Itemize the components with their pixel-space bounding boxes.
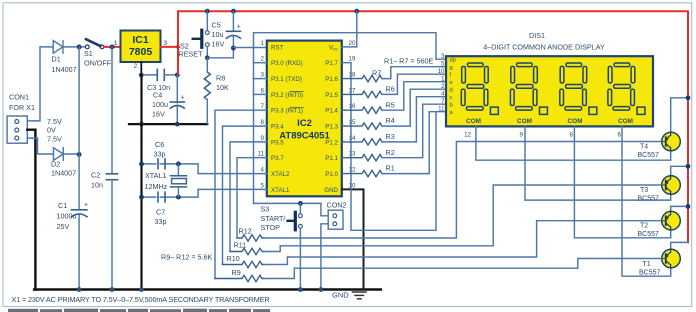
node xtal bottom left xyxy=(139,195,144,200)
node bus/CON2 xyxy=(319,287,324,292)
svg-text:15: 15 xyxy=(349,119,356,126)
resistor R12 5.6K and feed to T4 base xyxy=(237,142,662,242)
svg-text:R5: R5 xyxy=(386,100,395,109)
wire RST node to IC2 pin1 xyxy=(233,47,266,49)
svg-text:COM: COM xyxy=(466,118,481,125)
svg-text:BC557: BC557 xyxy=(638,196,660,203)
svg-text:dp: dp xyxy=(450,58,456,64)
svg-text:1: 1 xyxy=(441,76,445,83)
seven-segment digit 1 xyxy=(461,63,498,114)
resistor R1 560E to segment b xyxy=(342,112,448,177)
svg-text:c: c xyxy=(450,95,453,101)
svg-text:9: 9 xyxy=(520,132,524,139)
wire XTAL2 row (pin4) xyxy=(142,164,267,174)
svg-text:11: 11 xyxy=(258,151,265,158)
svg-text:20: 20 xyxy=(349,40,356,47)
svg-text:S1: S1 xyxy=(84,49,93,58)
svg-text:S3: S3 xyxy=(261,205,270,214)
svg-text:GND: GND xyxy=(332,291,349,300)
svg-text:7.5V: 7.5V xyxy=(47,135,62,144)
node S2/R8/C5 row xyxy=(205,55,210,60)
svg-text:33p: 33p xyxy=(154,150,166,159)
svg-text:1N4007: 1N4007 xyxy=(51,169,76,178)
svg-text:BC557: BC557 xyxy=(638,152,660,159)
resistor R2 560E to segment c xyxy=(342,104,448,161)
wire COM pin9 to T3 collector xyxy=(525,126,671,200)
svg-text:BC557: BC557 xyxy=(638,231,660,238)
wire IC2 pin2 stub xyxy=(254,62,267,64)
capacitor C1 1000u 25V xyxy=(57,201,89,231)
svg-text:R6: R6 xyxy=(386,85,395,94)
switch S2 RESET xyxy=(179,30,210,58)
wire C5 bottom to RST node xyxy=(232,37,234,48)
node rail/Vcc drop xyxy=(354,9,359,14)
svg-text:XTAL2: XTAL2 xyxy=(271,171,290,178)
resistor R11 5.6K and feed to T3 base xyxy=(230,185,662,255)
wire CON2 pin2 to ground bus xyxy=(321,224,328,290)
node xtal top left xyxy=(139,162,144,167)
svg-text:12MHz: 12MHz xyxy=(145,182,168,191)
svg-text:R9: R9 xyxy=(232,268,241,277)
wire IC1 pin2 ground drop xyxy=(140,62,142,75)
node red corner at IC1 pin3 xyxy=(176,45,180,49)
resistor R3 560E to segment d xyxy=(342,97,448,145)
wire COM pin8 to T2 collector xyxy=(574,126,670,237)
svg-text:R3: R3 xyxy=(386,132,395,141)
svg-text:R11: R11 xyxy=(234,241,247,250)
svg-text:C2: C2 xyxy=(91,171,100,180)
node bus/ground column xyxy=(139,287,144,292)
svg-text:1000u: 1000u xyxy=(57,212,77,221)
wire +5V red: IC1 out, top rail and right rail xyxy=(161,11,689,242)
node rail/S2 xyxy=(205,9,210,14)
svg-text:R4: R4 xyxy=(386,116,395,125)
diode D1 1N4007 xyxy=(52,41,77,74)
svg-text:1: 1 xyxy=(261,40,265,47)
wire IC2 pin19 to display segment a xyxy=(342,63,436,231)
wire T4 emitter to +5V rail xyxy=(671,98,688,133)
wire IC2 pin7 to R9 column xyxy=(215,110,267,278)
svg-text:13: 13 xyxy=(349,151,356,158)
node Vout / C4 top xyxy=(175,73,180,78)
wire Vcc drop rail to IC2 pin20 xyxy=(357,10,688,12)
node S3 top xyxy=(298,201,303,206)
svg-text:16V: 16V xyxy=(152,110,165,119)
capacitor C4 100u 16V xyxy=(152,91,185,119)
wire XTAL1 row (pin5) xyxy=(142,189,267,197)
svg-text:7805: 7805 xyxy=(129,46,153,58)
svg-text:4: 4 xyxy=(261,167,265,174)
resistor R4 560E to segment e xyxy=(342,89,448,129)
svg-text:10n: 10n xyxy=(91,181,103,190)
svg-text:16V: 16V xyxy=(212,40,225,49)
svg-text:10K: 10K xyxy=(216,83,229,92)
wire C4 bottom lead xyxy=(176,107,178,125)
wire C2 bottom to ground bus xyxy=(111,180,113,290)
svg-text:+: + xyxy=(181,95,185,102)
svg-text:RST: RST xyxy=(271,44,284,51)
wire S3 feed row from pin6 column xyxy=(254,202,321,204)
svg-text:d: d xyxy=(450,88,453,94)
svg-text:C7: C7 xyxy=(156,208,165,217)
svg-text:1: 1 xyxy=(114,40,118,47)
svg-text:33p: 33p xyxy=(155,217,167,226)
svg-text:P3.4: P3.4 xyxy=(271,124,284,131)
svg-text:STOP: STOP xyxy=(261,223,281,232)
svg-text:10: 10 xyxy=(438,68,445,75)
capacitor C5 10u 16V xyxy=(212,21,241,49)
wire S2 top lead xyxy=(206,11,208,31)
svg-text:b: b xyxy=(450,103,453,109)
wire COM pin12 to T4 collector xyxy=(476,126,671,160)
svg-text:P1.1: P1.1 xyxy=(325,155,338,162)
wire C3 to Vout column xyxy=(164,74,177,76)
node RST xyxy=(231,46,236,51)
svg-text:P1.0: P1.0 xyxy=(325,171,338,178)
wire S3 bottom to ground bus xyxy=(299,228,301,289)
svg-text:5: 5 xyxy=(441,61,445,68)
ground bus bottom (black) xyxy=(34,288,381,291)
wire IC2 pin11 to R12 column xyxy=(237,158,267,238)
switch S1 ON/OFF xyxy=(84,39,112,67)
svg-text:START/: START/ xyxy=(261,214,286,223)
svg-text:10: 10 xyxy=(349,182,356,189)
svg-text:R2: R2 xyxy=(386,148,395,157)
node rail/C5 xyxy=(231,9,236,14)
node rail/T4 emitter xyxy=(686,95,691,100)
svg-text:4–DIGIT COMMON ANODE DISPLAY: 4–DIGIT COMMON ANODE DISPLAY xyxy=(483,43,605,52)
wire CON1 pin1 to D1 anode xyxy=(27,47,53,121)
svg-text:7: 7 xyxy=(441,98,445,105)
svg-text:P3.7: P3.7 xyxy=(271,155,284,162)
svg-text:R1: R1 xyxy=(386,164,395,173)
regulator IC1 7805 xyxy=(121,31,161,63)
svg-text:17: 17 xyxy=(349,87,356,94)
wire C1 bottom to ground bus xyxy=(78,215,80,289)
svg-text:C6: C6 xyxy=(155,140,164,149)
wire ground branch horizontal xyxy=(129,123,207,125)
svg-text:RESET: RESET xyxy=(179,50,204,59)
svg-text:2: 2 xyxy=(441,83,445,90)
resistor R6 560E to segment g xyxy=(342,74,448,97)
svg-text:P1.6: P1.6 xyxy=(325,76,338,83)
transistor T2 BC557 xyxy=(662,211,681,230)
svg-text:P3.0 (RXD): P3.0 (RXD) xyxy=(271,60,303,67)
overline INT0 xyxy=(290,91,304,93)
node xtal bottom right xyxy=(176,195,181,200)
connector CON1 xyxy=(7,93,35,144)
svg-text:P3.1 (TXD): P3.1 (TXD) xyxy=(271,76,302,83)
wire T2 emitter to +5V rail xyxy=(671,206,688,212)
diode D2 1N4007 xyxy=(51,148,76,178)
transistor T3 BC557 xyxy=(662,176,681,195)
svg-text:P1.2: P1.2 xyxy=(325,139,338,146)
overline INT1 xyxy=(290,106,304,108)
svg-text:4: 4 xyxy=(441,91,445,98)
svg-text:C1: C1 xyxy=(58,201,67,210)
svg-text:11: 11 xyxy=(438,106,445,113)
svg-text:C4: C4 xyxy=(153,91,162,100)
node C2 top junction xyxy=(110,45,115,50)
seven-segment digit 3 xyxy=(560,63,597,114)
wire P3 branch over IC2 to display dp xyxy=(254,33,449,204)
node ground branch / main column xyxy=(139,122,144,127)
svg-text:R8: R8 xyxy=(216,74,225,83)
wire D2 cathode to node B xyxy=(63,153,79,155)
switch S3 START/STOP xyxy=(261,203,303,232)
svg-text:10u: 10u xyxy=(212,30,224,39)
wire C2 column xyxy=(111,47,113,173)
svg-text:XTAL1: XTAL1 xyxy=(271,187,290,194)
node bus/S3 xyxy=(298,287,303,292)
svg-text:COM: COM xyxy=(517,118,532,125)
wire node A down to C1 xyxy=(78,47,80,210)
svg-text:P1.3: P1.3 xyxy=(325,124,338,131)
svg-text:AT89C4051: AT89C4051 xyxy=(279,131,330,142)
svg-text:IC2: IC2 xyxy=(297,118,312,129)
node IC1 pin2 / C3 / ground xyxy=(139,73,144,78)
svg-text:R7: R7 xyxy=(372,68,381,77)
cropped text band at page bottom xyxy=(8,309,270,312)
svg-text:R1– R7 = 560E: R1– R7 = 560E xyxy=(384,57,434,66)
node A junction D1/D2/S1 xyxy=(77,45,82,50)
resistor R10 5.6K and feed to T2 base xyxy=(223,221,663,268)
wire C4 top lead xyxy=(176,75,178,103)
svg-text:D2: D2 xyxy=(51,160,60,169)
seven-segment digit 4 xyxy=(608,63,645,114)
svg-text:R12: R12 xyxy=(239,227,252,236)
svg-text:GND: GND xyxy=(324,187,338,194)
svg-text:COM: COM xyxy=(568,118,583,125)
node B junction D-output column xyxy=(77,152,82,157)
svg-text:T3: T3 xyxy=(640,187,648,194)
node rail/T2 emitter xyxy=(686,204,691,209)
node ground branch / C4 xyxy=(175,122,180,127)
wire IC2 pin10 GND to bus xyxy=(342,189,364,289)
resistor R9 5.6K and feed to T1 base xyxy=(215,259,662,282)
node rail/T3 emitter xyxy=(686,164,691,169)
svg-text:T2: T2 xyxy=(640,223,648,230)
svg-text:18: 18 xyxy=(349,72,356,79)
svg-text:19: 19 xyxy=(349,56,356,63)
svg-text:2: 2 xyxy=(134,63,138,70)
svg-text:9: 9 xyxy=(261,135,265,142)
svg-text:+: + xyxy=(237,24,241,31)
svg-text:R9– R12 = 5.6K: R9– R12 = 5.6K xyxy=(161,253,213,262)
wire D1 cathode to node A xyxy=(63,46,86,48)
wire CON2 pin1 from S3 row xyxy=(321,203,328,215)
svg-text:P1.4: P1.4 xyxy=(325,108,338,115)
resistor R8 10K xyxy=(204,58,229,124)
svg-text:T4: T4 xyxy=(640,144,648,151)
wire S1 to IC1 pin1 (red) xyxy=(104,46,121,48)
svg-text:1N4007: 1N4007 xyxy=(52,65,77,74)
capacitor C3 10n xyxy=(147,69,170,92)
seven-segment digit 2 xyxy=(510,63,547,114)
resistor R5 560E to segment f xyxy=(342,82,448,114)
svg-text:16: 16 xyxy=(349,103,356,110)
svg-text:g: g xyxy=(450,65,453,71)
svg-text:7: 7 xyxy=(261,103,265,110)
transistor T4 BC557 xyxy=(662,132,681,151)
capacitor C2 10n xyxy=(91,171,118,190)
svg-text:25V: 25V xyxy=(57,222,70,231)
node bus/C1 xyxy=(77,287,82,292)
svg-text:DIS1: DIS1 xyxy=(529,31,545,40)
svg-text:FOR X1: FOR X1 xyxy=(9,103,35,112)
svg-text:IC1: IC1 xyxy=(132,34,149,46)
svg-text:6: 6 xyxy=(261,87,265,94)
node xtal top right xyxy=(176,162,181,167)
svg-text:D1: D1 xyxy=(52,55,61,64)
microcontroller IC2 AT89C4051 xyxy=(258,40,356,196)
svg-text:0V: 0V xyxy=(47,126,56,135)
svg-text:CON2: CON2 xyxy=(327,201,347,210)
wire main ground column xyxy=(140,75,142,290)
svg-text:8: 8 xyxy=(570,132,574,139)
display DIS1 4-digit common anode xyxy=(438,31,653,126)
svg-text:5: 5 xyxy=(261,182,265,189)
svg-text:8: 8 xyxy=(261,119,265,126)
wire IC2 pin3 stub xyxy=(254,78,267,80)
svg-text:3: 3 xyxy=(261,72,265,79)
svg-text:CON1: CON1 xyxy=(9,93,29,102)
wire C5 top lead xyxy=(232,11,234,31)
svg-text:P3.3 (INT1): P3.3 (INT1) xyxy=(271,108,303,115)
wire IC2 pin8 to R10 column xyxy=(223,126,267,264)
svg-text:3: 3 xyxy=(441,53,445,60)
svg-text:XTAL1: XTAL1 xyxy=(145,171,166,180)
svg-text:+: + xyxy=(84,202,88,209)
svg-text:P1.5: P1.5 xyxy=(325,92,338,99)
wire S2 bottom to R8 node xyxy=(206,47,208,58)
node bus/C2 xyxy=(110,287,115,292)
svg-text:e: e xyxy=(450,80,453,86)
svg-text:X1 = 230V AC PRIMARY TO 7.5V–0: X1 = 230V AC PRIMARY TO 7.5V–0–7.5V,500m… xyxy=(12,295,270,304)
ground symbol GND xyxy=(332,291,366,300)
svg-text:100u: 100u xyxy=(152,100,168,109)
wire R8 node to C5 column xyxy=(207,48,233,58)
wire IC2 pin9 to R11 column xyxy=(230,142,267,252)
wire COM pin6 to T1 collector xyxy=(622,126,671,276)
wire CON1 pin2 0V to ground bus (black) xyxy=(27,130,35,290)
transistor T1 BC557 xyxy=(662,249,681,268)
svg-text:P3.2 (INT0): P3.2 (INT0) xyxy=(271,92,303,99)
capacitor C7 33p xyxy=(155,192,167,226)
svg-text:R10: R10 xyxy=(227,254,240,263)
svg-text:P3.5: P3.5 xyxy=(271,139,284,146)
wire C3 row xyxy=(141,74,157,76)
svg-text:ON/OFF: ON/OFF xyxy=(84,59,112,68)
wire CON1 pin3 to D2 anode xyxy=(27,138,53,154)
svg-text:6: 6 xyxy=(618,132,622,139)
wire red drop from pin3 row to C3 node xyxy=(177,47,179,74)
wire IC2 pin6 stub xyxy=(254,93,267,95)
wire T1 emitter to +5V rail end xyxy=(671,242,688,249)
wire T3 emitter to +5V rail xyxy=(671,166,688,176)
svg-text:T1: T1 xyxy=(643,261,651,268)
svg-text:12: 12 xyxy=(464,132,471,139)
svg-text:P1.7: P1.7 xyxy=(325,60,338,67)
crystal XTAL1 12MHz xyxy=(145,164,187,197)
svg-text:12: 12 xyxy=(349,167,356,174)
svg-text:14: 14 xyxy=(349,135,356,142)
connector CON2 xyxy=(327,201,347,230)
svg-text:C5: C5 xyxy=(212,21,221,30)
svg-text:COM: COM xyxy=(618,118,633,125)
capacitor C6 33p xyxy=(154,140,166,169)
svg-text:2: 2 xyxy=(261,56,265,63)
svg-text:BC557: BC557 xyxy=(639,270,661,277)
resistor R7 560E to segment dp xyxy=(342,67,448,82)
